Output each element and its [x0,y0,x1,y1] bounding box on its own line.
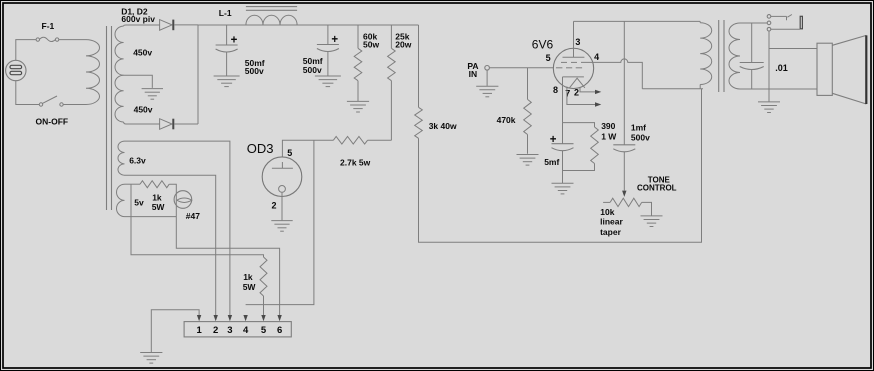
wire C1 top [226,25,228,45]
svg-text:1mf: 1mf [631,123,646,133]
transformer T2 secondary winding [729,23,740,89]
svg-text:500v: 500v [245,66,264,76]
wire 25k top [390,25,392,48]
svg-text:5: 5 [287,148,292,158]
wire 1mf drop [623,21,625,144]
choke L-1 [246,15,297,25]
svg-text:#47: #47 [186,211,200,221]
ground tone pot [641,216,663,227]
wire 5v bottom lead [125,216,177,218]
fuse F-1 [36,37,59,41]
transformer T2 primary winding [700,21,712,88]
wire plate rail [574,20,701,22]
wire T2 primary bottom [642,88,703,90]
svg-text:470k: 470k [497,115,516,125]
svg-text:500v: 500v [303,65,322,75]
wire to speaker top [769,48,817,50]
wire C1 bottom [226,52,228,76]
svg-text:ON-OFF: ON-OFF [36,117,69,127]
OD3 cathode circle [279,186,286,193]
svg-text:5mf: 5mf [544,157,559,167]
arrow into terminal 1 [197,315,201,321]
svg-text:.01: .01 [775,63,788,73]
svg-text:F-1: F-1 [42,21,55,31]
wire 1k to lamp corner [169,184,279,315]
wire HV top lead [124,25,160,26]
wire 5v top lead [125,183,141,185]
tube 6V6 [553,48,593,88]
svg-text:7: 7 [565,89,570,99]
svg-text:+: + [550,134,557,146]
svg-text:600v piv: 600v piv [121,14,155,24]
svg-text:5v: 5v [134,198,144,208]
svg-text:3: 3 [227,325,232,336]
svg-text:2: 2 [574,88,579,98]
resistor 1k 5W lamp [140,181,169,188]
svg-text:1 W: 1 W [601,132,617,142]
wire .01 cap drop [751,23,753,63]
arrow into terminal 2 [214,315,218,321]
transformer T1 HV secondary upper winding [115,26,124,75]
transformer T2 core [719,20,724,92]
svg-text:IN: IN [469,69,478,79]
wire fuse to transformer primary [59,39,86,41]
jack terminal ring [767,21,771,25]
svg-text:L-1: L-1 [219,8,232,18]
diode D2 [160,119,174,130]
ground 60k [347,101,369,112]
wire 6.3v bottom to t2 [125,175,216,315]
6V6 screen grid dashes [561,61,577,63]
transformer T1 core [107,26,112,210]
svg-text:5W: 5W [152,202,166,212]
svg-text:1k: 1k [243,272,253,282]
transformer T1 6.3v winding [118,141,125,175]
wire B+ rail [198,24,419,26]
wire 6V6 pin4 screen [581,59,642,89]
wire OD3 pin5 riser [282,140,333,157]
svg-text:50w: 50w [363,40,379,50]
wire cathode bottom rail [563,164,595,171]
ground terminal 1 [140,353,162,364]
svg-text:8: 8 [553,85,558,95]
capacitor 1mf 500v [613,145,635,152]
arrow into terminal 6 [277,315,281,321]
potentiometer 10k tone [603,198,651,216]
svg-text:6.3v: 6.3v [129,156,146,166]
wire switch to primary bottom [63,104,86,106]
resistor 390 1W [591,127,599,164]
wire 5mf top [562,123,564,144]
resistor 470k [524,99,532,134]
svg-text:1k: 1k [152,192,162,202]
wire OD3 junction down to t4 [246,140,314,304]
ground 5mf [552,183,574,194]
svg-text:20w: 20w [395,40,411,50]
svg-text:2: 2 [272,201,277,211]
transformer T1 HV secondary lower winding [115,75,124,122]
svg-text:+: + [231,35,238,47]
capacitor .01 [740,63,764,70]
6V6 plate bar [563,56,585,58]
wire 60k top [357,25,359,48]
wire 5v top tap down [131,184,264,257]
svg-text:taper: taper [600,227,621,237]
speaker [817,35,866,104]
wire 2.7k to 25k [368,139,392,141]
arrow into terminal 5 [261,315,265,321]
svg-text:5: 5 [261,325,267,336]
wire jack sleeve down [768,31,770,102]
resistor 25k 20w [388,48,396,80]
ground 470k [517,155,539,166]
wire cathode top rail [563,123,595,127]
svg-text:10k: 10k [600,207,614,217]
wire T2 secondary bottom [740,88,817,90]
wire 3k top [418,25,420,107]
lamp #47 [174,191,192,209]
transformer T1 5v winding [116,184,124,216]
capacitor C1 50mf [216,45,238,52]
tube OD3 [262,157,302,197]
wire HV bottom lead [124,122,160,124]
6V6 cathode tent [570,78,585,88]
resistor 60k 50w [354,48,362,80]
svg-text:6V6: 6V6 [532,37,554,51]
wire 6.3v top to t3 [125,141,230,315]
jack sleeve wire to bar [771,28,800,30]
wire 1mf to wiper arrow [622,152,626,197]
svg-text:CONTROL: CONTROL [637,184,677,193]
resistor 2.7k 5w [333,137,367,145]
svg-text:linear: linear [600,217,623,227]
svg-text:3k 40w: 3k 40w [429,121,457,131]
wire plug bottom to switch [16,81,39,105]
AC plug P1 [6,60,26,80]
wire center tap [124,75,153,88]
wire 3k bottom to B+ riser [419,89,702,242]
ground jack [758,102,780,113]
wire 6V6 pin 2 heater [580,87,601,94]
wire rectifier junction vertical [197,25,199,124]
wire C2 bottom [327,51,329,76]
ground C2 [315,76,341,87]
jack terminal tip [767,15,771,19]
jack tip wire and switch tick [771,15,792,21]
ground PA IN [476,86,498,97]
svg-text:2.7k 5w: 2.7k 5w [340,157,371,167]
wire D2 cathode to junction [174,123,198,125]
resistor 1k 5W strip [260,257,267,296]
terminal strip TS1 [184,322,291,337]
svg-text:500v: 500v [631,132,650,142]
svg-text:4: 4 [243,325,249,336]
ground C1 [214,76,240,87]
wire ground to t1 [151,310,199,353]
wire 5mf bottom [562,151,564,183]
wire 6V6 pin 7 heater [567,87,601,107]
capacitor C2 50mf [317,45,339,52]
arrow into terminal 4 [243,315,247,321]
wire 60k bottom [357,81,359,101]
wire 25k bottom [390,81,392,141]
diode D1 [160,20,174,31]
wire 470k bottom [527,135,529,154]
wire plug top to fuse [16,40,36,61]
capacitor 5mf [552,144,574,151]
6V6 control grid dashes [556,67,582,69]
switch ON-OFF S1 [39,96,63,106]
ground center tap [142,89,163,100]
6V6 beam plate [563,76,584,78]
OD3 plate bar [272,162,293,168]
arrow into terminal 3 [228,315,232,321]
resistor 3k 40w [415,107,423,138]
jack terminal sleeve [767,27,771,31]
wire 6V6 cathode pin8 [562,77,564,123]
wire 1k strip to t5 [263,296,265,315]
svg-text:4: 4 [594,52,599,62]
ground OD3 [271,221,292,232]
svg-text:5W: 5W [243,282,257,292]
svg-text:+: + [331,34,338,46]
wire C2 top [327,25,329,45]
svg-text:390: 390 [601,121,615,131]
wire 6V6 plate riser pin3 [573,21,575,57]
svg-text:450v: 450v [133,47,152,57]
choke L-1 core [246,7,297,11]
svg-text:450v: 450v [134,105,153,115]
terminal PA IN [485,66,490,71]
svg-text:6: 6 [277,325,282,336]
transformer T1 primary winding [86,40,100,105]
wire OD3 cathode [281,192,283,220]
wire .01 bottom [751,70,753,90]
wire PA IN to grid [489,67,553,69]
wire PA IN stem [486,70,488,86]
jack plug bar [800,16,802,29]
wire D1 cathode to junction [174,24,198,26]
svg-text:2: 2 [213,325,218,336]
svg-text:5: 5 [546,53,551,63]
svg-text:1: 1 [196,325,202,336]
wire 470k top [527,68,529,100]
wire T2 secondary top lead [740,22,767,24]
svg-text:3: 3 [575,37,580,47]
svg-text:OD3: OD3 [247,141,274,156]
